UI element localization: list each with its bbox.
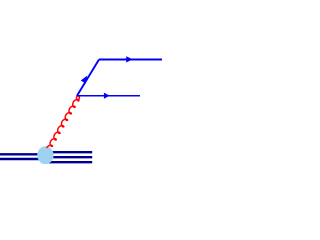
- arrow on quark line q2: [81, 76, 87, 84]
- arrow on quark line q3: [126, 56, 133, 62]
- quark line q2 (diagonal): [77, 60, 99, 96]
- quark line q1 (middle horizontal): [77, 95, 140, 97]
- wire: incoming proton line 1: [0, 153, 46, 155]
- proton blob: [37, 146, 53, 164]
- wire: outgoing remnant line 3: [44, 161, 92, 163]
- quark line q3 (top horizontal): [99, 58, 162, 60]
- wire: outgoing remnant line 1: [44, 151, 92, 153]
- gluon g (curly line): [47, 95, 79, 147]
- wire: incoming proton line 2: [0, 158, 46, 160]
- arrow on quark line q1: [104, 93, 110, 99]
- wire: outgoing remnant line 2: [44, 156, 92, 158]
